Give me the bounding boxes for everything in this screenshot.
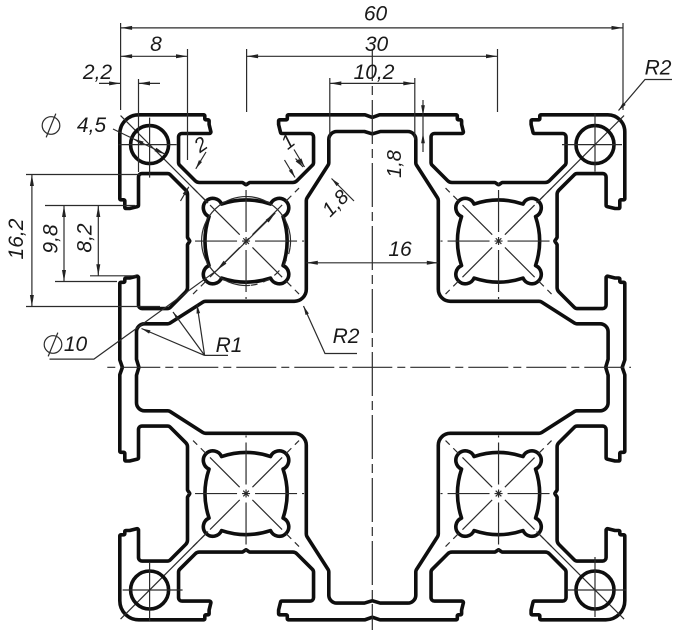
svg-text:R2: R2 bbox=[333, 325, 360, 348]
outer profile contour bbox=[120, 115, 625, 620]
corner hole top-left bbox=[119, 118, 177, 178]
corner hole top-right bbox=[562, 114, 622, 172]
dimension 8 bbox=[121, 55, 188, 57]
svg-text:10: 10 bbox=[64, 333, 88, 356]
dimension 16 bbox=[306, 262, 438, 264]
dimension 60 bbox=[121, 27, 623, 29]
module centerlines bbox=[188, 183, 304, 299]
svg-text:30: 30 bbox=[365, 33, 389, 56]
module cavity top-left bbox=[121, 116, 304, 299]
dimension 2,2 bbox=[99, 82, 160, 84]
dimension 8,2 bbox=[97, 206, 99, 276]
dimension 9,8 bbox=[63, 206, 65, 282]
label diameter 4,5 bbox=[42, 117, 60, 135]
svg-text:10,2: 10,2 bbox=[354, 61, 395, 84]
svg-text:8: 8 bbox=[150, 33, 162, 56]
svg-text:R1: R1 bbox=[216, 334, 243, 357]
dimension 30 bbox=[247, 55, 498, 57]
module centerlines bbox=[441, 436, 557, 552]
module cavity bottom-left bbox=[121, 436, 304, 620]
corner hole bottom-left bbox=[123, 563, 183, 621]
dimension 10,2 bbox=[330, 82, 415, 84]
main diagonal solid through corner hole bbox=[121, 116, 209, 204]
svg-text:R2: R2 bbox=[645, 57, 672, 80]
vertical centerline bbox=[371, 50, 373, 630]
extension lines left bbox=[26, 174, 140, 176]
extension lines top bbox=[120, 23, 122, 110]
svg-text:16,2: 16,2 bbox=[5, 218, 28, 259]
corner hole bottom-right bbox=[568, 557, 626, 617]
svg-text:16: 16 bbox=[388, 238, 412, 261]
module cavity top-right bbox=[441, 116, 625, 299]
svg-text:9,8: 9,8 bbox=[40, 224, 63, 254]
label diameter 10 bbox=[44, 336, 62, 354]
module centerlines bbox=[188, 436, 304, 552]
svg-text:1,8: 1,8 bbox=[384, 150, 406, 178]
main diagonal solid through corner hole bbox=[537, 116, 625, 204]
module centerlines bbox=[441, 183, 557, 299]
central cross cavity bbox=[136, 131, 608, 603]
svg-text:8,2: 8,2 bbox=[74, 223, 97, 253]
svg-text:60: 60 bbox=[364, 3, 388, 26]
module cavity bottom-right bbox=[441, 436, 625, 620]
main diagonal solid through corner hole bbox=[121, 532, 209, 620]
dimension 16,2 bbox=[31, 175, 33, 307]
main diagonal solid through corner hole bbox=[537, 532, 625, 620]
thread circle bbox=[202, 197, 291, 286]
svg-text:4,5: 4,5 bbox=[77, 114, 107, 137]
svg-text:2,2: 2,2 bbox=[82, 61, 113, 84]
horizontal centerline bbox=[104, 366, 631, 368]
